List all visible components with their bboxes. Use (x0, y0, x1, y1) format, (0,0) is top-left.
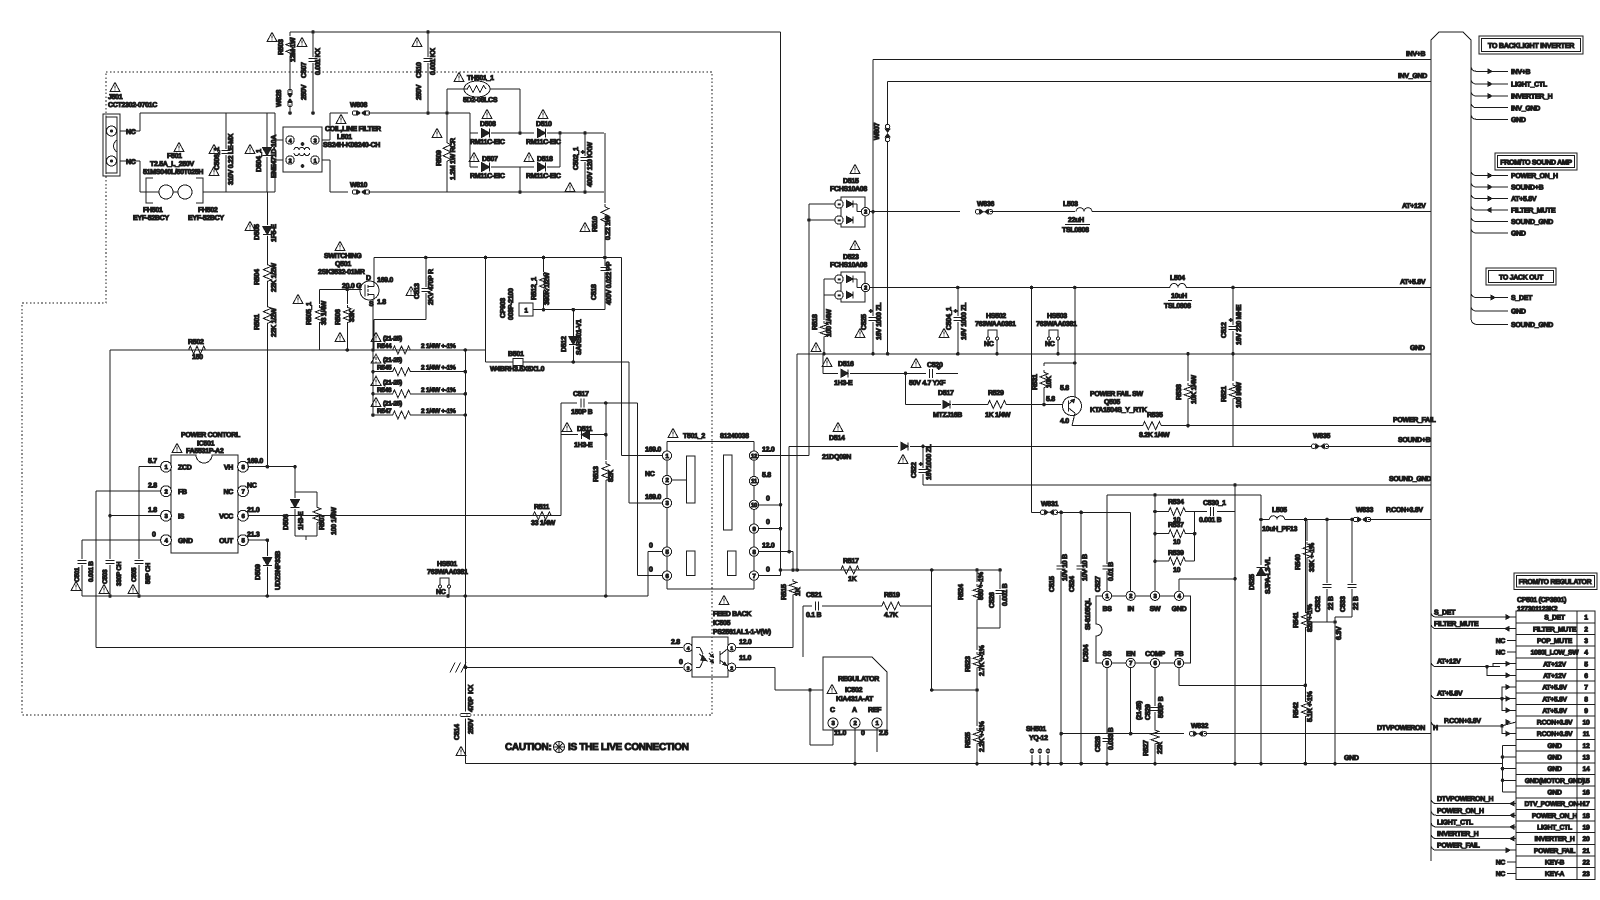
svg-text:GND(MOTOR_GND): GND(MOTOR_GND) (1525, 778, 1585, 785)
svg-text:D506: D506 (283, 514, 290, 530)
IC504 pin 2 IN (1126, 512, 1135, 613)
R504 labels (254, 263, 278, 292)
Y-capacitor C514 (461, 714, 471, 764)
svg-text:COMP: COMP (1145, 651, 1165, 658)
svg-text:763WAA0381: 763WAA0381 (975, 321, 1016, 328)
svg-text:POWER_FAIL: POWER_FAIL (1437, 843, 1481, 850)
svg-text:D507: D507 (482, 156, 498, 163)
wire OUT pin5 (248, 538, 270, 542)
svg-text:INVERTER_H: INVERTER_H (1437, 831, 1479, 838)
svg-text:169.0: 169.0 (377, 277, 393, 284)
R521 labels (1221, 382, 1243, 408)
capacitor C529 (1151, 697, 1160, 727)
svg-text:D504_1: D504_1 (256, 149, 263, 172)
label POWER_FAIL at connector (1393, 417, 1437, 424)
wire secondary ground rail (797, 352, 1431, 356)
wire Q501 gate (319, 288, 362, 304)
label GND bottom rail (1344, 755, 1359, 762)
svg-text:D523: D523 (843, 254, 859, 261)
signal GND to sound amp (1471, 228, 1526, 238)
svg-text:23: 23 (1583, 871, 1590, 878)
svg-text:LIGHT_CTL: LIGHT_CTL (1437, 819, 1474, 826)
svg-text:D517: D517 (938, 390, 954, 397)
svg-text:TSL0808: TSL0808 (1164, 303, 1191, 310)
svg-text:D515: D515 (843, 178, 859, 185)
svg-text:2.5: 2.5 (879, 730, 888, 737)
diode D525 (freewheel) (1257, 520, 1266, 766)
capacitor C527 (bootstrap) (1102, 495, 1111, 591)
svg-text:150: 150 (192, 354, 203, 361)
CP501 pin 20 INVERTER_H (1534, 836, 1590, 843)
CP501 pin 19 LIGHT_CTL (1537, 825, 1590, 832)
svg-text:C524: C524 (1069, 576, 1076, 592)
capacitor C522 (919, 445, 928, 486)
wire D515 output (AT+12V) (870, 210, 960, 214)
CP501 pin 13 GND (1547, 755, 1590, 762)
svg-text:NC: NC (1496, 871, 1506, 878)
wire line to bridge (428, 113, 520, 192)
C503 labels (99, 561, 123, 593)
svg-text:400V 120 KXW: 400V 120 KXW (587, 142, 594, 187)
svg-text:IC501: IC501 (197, 441, 215, 448)
capacitor C515 (1057, 512, 1066, 765)
svg-text:D: D (366, 275, 371, 282)
svg-text:0.22 1W: 0.22 1W (605, 215, 612, 240)
jumper W835 (1311, 433, 1431, 449)
svg-text:NC: NC (1496, 638, 1506, 645)
signal POWER_ON_H to sound amp (1471, 171, 1558, 181)
svg-text:21.3: 21.3 (247, 532, 260, 539)
wire Q505 collector (power fail) (1072, 425, 1140, 427)
coil line filter L501 (283, 127, 322, 172)
bridge diode D508 (470, 129, 522, 138)
wire POWER_FAIL to CP501 pin21 (1431, 843, 1516, 853)
svg-text:250V: 250V (301, 84, 308, 100)
CP501 pin 14 GND (1547, 766, 1590, 773)
label AT+12V at connector (1402, 203, 1426, 210)
wire line top (140, 112, 267, 114)
svg-text:GND: GND (1511, 117, 1526, 124)
svg-text:LIGHT_CTL: LIGHT_CTL (1511, 82, 1548, 89)
svg-text:2 1/4W +-1%: 2 1/4W +-1% (421, 343, 456, 350)
diode D516 (823, 354, 907, 378)
D510 labels (526, 110, 561, 147)
svg-text:5: 5 (1584, 661, 1588, 668)
capacitor C505 (135, 548, 144, 596)
CP501 pin 22 KEY-B (1545, 859, 1590, 866)
svg-text:FROM/TO SOUND AMP: FROM/TO SOUND AMP (1500, 159, 1572, 167)
svg-text:INV_GND: INV_GND (1511, 105, 1540, 112)
R513 labels (593, 466, 615, 482)
wire VCC pin6 (248, 514, 561, 518)
J501 label (108, 83, 157, 110)
svg-text:IC504: IC504 (1083, 644, 1090, 662)
jumper W828 (276, 89, 292, 115)
svg-text:D509: D509 (255, 564, 262, 580)
svg-text:5.1K +-1%: 5.1K +-1% (1307, 690, 1314, 722)
wire L501 in/out jogs (267, 113, 348, 192)
R540 element (1303, 520, 1311, 623)
svg-text:169.0: 169.0 (645, 494, 661, 501)
svg-text:CP903: CP903 (500, 298, 507, 318)
svg-text:11.0: 11.0 (739, 655, 751, 662)
label GND at connector (1410, 345, 1425, 352)
transistor Q505 power fail switch (1063, 397, 1082, 426)
resistor R538 (1184, 354, 1192, 426)
svg-text:B501: B501 (508, 351, 524, 358)
wire IC504 gnd to rail (1233, 485, 1237, 766)
svg-text:C520: C520 (927, 362, 943, 369)
resistor R501 (263, 304, 271, 467)
D517 labels (933, 390, 962, 419)
svg-text:SW: SW (1150, 606, 1161, 613)
svg-text:22K: 22K (1157, 742, 1164, 754)
R545 labels (371, 354, 456, 372)
R524 labels (958, 571, 985, 600)
svg-text:S_DET: S_DET (1434, 610, 1456, 617)
svg-text:9: 9 (1584, 708, 1588, 715)
IC502 labels (827, 676, 879, 703)
svg-text:HS503: HS503 (1047, 313, 1067, 320)
svg-text:GND: GND (1410, 345, 1425, 352)
svg-text:D510: D510 (536, 121, 552, 128)
R540 labels (1295, 542, 1316, 572)
svg-text:VCC: VCC (219, 514, 233, 521)
svg-text:FROM/TO REGULATOR: FROM/TO REGULATOR (1519, 578, 1592, 586)
capacitor C506_1 (222, 113, 231, 192)
jumper W831 (1040, 501, 1130, 515)
C506_1 labels (209, 133, 235, 185)
svg-text:DTV_POWER_ON-H: DTV_POWER_ON-H (1525, 801, 1585, 808)
caution note text (505, 742, 689, 754)
rectifier D523 labels (830, 241, 867, 270)
R546 labels (371, 376, 456, 394)
CP501 pin 3 POP_MUTE (1537, 638, 1588, 645)
svg-text:2: 2 (864, 286, 867, 292)
svg-text:PS2561AL1-1-V(W): PS2561AL1-1-V(W) (713, 628, 771, 636)
wire y-cap bus to secondary gnd (780, 32, 782, 488)
svg-text:763WAA0381: 763WAA0381 (427, 569, 468, 576)
svg-text:RM11C-EIC: RM11C-EIC (470, 139, 505, 146)
svg-text:R512_1: R512_1 (531, 277, 538, 300)
J501 pin NC labels (126, 129, 136, 166)
svg-text:R511: R511 (534, 504, 550, 511)
svg-text:5.8: 5.8 (762, 472, 771, 479)
svg-text:C532: C532 (1315, 596, 1322, 612)
C518 labels (591, 261, 613, 305)
R503 labels (267, 33, 297, 63)
svg-text:S_DET: S_DET (1544, 615, 1566, 622)
wire IC502 cathode (0, 0, 1, 1)
svg-text:1H3-E: 1H3-E (298, 511, 305, 530)
R538 labels (1176, 375, 1198, 404)
transformer T501_2 secondary pins (749, 442, 758, 581)
svg-text:2.8: 2.8 (671, 639, 680, 646)
capacitor C526 (977, 568, 1005, 628)
wire SOUND_GND (923, 483, 1431, 487)
svg-text:R521: R521 (1221, 386, 1228, 402)
C520 labels (909, 359, 946, 388)
wire secondary 0V bracket pins 9 10 (759, 488, 783, 576)
svg-text:GND: GND (178, 538, 193, 545)
C501 labels (71, 561, 95, 591)
D525 labels (1249, 556, 1272, 594)
transformer T501_2 primary winding bars (672, 456, 695, 576)
svg-text:10: 10 (1173, 567, 1181, 574)
svg-text:10: 10 (1583, 720, 1590, 727)
CP501 pin 2 FILTER_MUTE (1533, 626, 1588, 633)
svg-text:16: 16 (1583, 790, 1590, 797)
wire VH pin8 (248, 465, 297, 469)
svg-text:NC: NC (1496, 650, 1506, 657)
svg-text:820 +-1%: 820 +-1% (1307, 603, 1314, 632)
svg-text:R538: R538 (1176, 384, 1183, 400)
svg-text:P.CON+3.8V: P.CON+3.8V (1537, 720, 1573, 727)
jumper W807 (874, 82, 890, 354)
C513 labels (406, 269, 435, 305)
wire primary pin1 feed (621, 258, 662, 456)
wire POWER_ON_H to CP501 pin18 (1431, 808, 1516, 818)
diode D504_1 (TVS across line) (263, 113, 272, 192)
wire INVERTER_H to CP501 pin20 (1431, 831, 1516, 841)
svg-text:2.7K +-1%: 2.7K +-1% (979, 644, 986, 676)
R541 element (1301, 520, 1309, 686)
svg-text:1F5-E: 1F5-E (271, 224, 278, 242)
svg-text:0.033 B: 0.033 B (1108, 727, 1115, 750)
CP501 pin 18 POWER_ON_H (1532, 813, 1590, 820)
heat sink HS501 (427, 561, 468, 596)
resistor R518 (820, 313, 828, 356)
transformer T501_2 primary pins (662, 442, 671, 581)
B501 labels (490, 351, 545, 373)
svg-text:0: 0 (766, 496, 770, 503)
svg-text:12.0: 12.0 (739, 639, 752, 646)
svg-text:FA5531P-A2: FA5531P-A2 (186, 448, 224, 455)
D511 labels (562, 423, 593, 450)
IC501 pin 1 ZCD (148, 458, 192, 472)
svg-text:0.001 KX: 0.001 KX (430, 48, 437, 75)
ground symbol (chassis) (450, 663, 467, 673)
wire primary pin6 aux (637, 403, 662, 576)
D504_1 labels (245, 135, 278, 178)
svg-text:C507: C507 (301, 62, 308, 78)
D518 labels (524, 153, 561, 181)
svg-text:400V 0.022 PP: 400V 0.022 PP (606, 261, 613, 305)
wire P.CON+3.8V to CP501 pins 10 11 (1431, 718, 1516, 736)
svg-text:D518: D518 (537, 156, 553, 163)
IC504 pin 8 SS (1102, 651, 1112, 733)
D507 labels (469, 153, 505, 181)
svg-text:SARS01-V1: SARS01-V1 (576, 319, 583, 355)
svg-text:C506_1: C506_1 (214, 147, 221, 170)
label AT+5.8V at connector (1400, 279, 1426, 286)
resistor R521 (1229, 354, 1237, 447)
wire feedback 0 net (466, 666, 683, 668)
svg-text:GND: GND (1547, 790, 1562, 797)
R502 labels (188, 339, 204, 361)
svg-text:560 +-1%: 560 +-1% (978, 571, 985, 600)
R539 labels (1168, 550, 1184, 574)
svg-text:W810: W810 (350, 182, 367, 189)
svg-text:763WAA0381: 763WAA0381 (1036, 321, 1077, 328)
svg-text:AT+5.8V: AT+5.8V (1511, 196, 1537, 203)
svg-text:16V 1000 ZL: 16V 1000 ZL (876, 302, 883, 340)
svg-text:22 B: 22 B (1328, 596, 1335, 610)
svg-text:C513: C513 (414, 283, 421, 299)
svg-text:C527: C527 (1095, 576, 1102, 592)
transformer T501_2 secondary winding bars (724, 455, 736, 576)
svg-text:2.8: 2.8 (148, 483, 157, 490)
connector CP903 (519, 303, 545, 316)
C521 labels (806, 592, 822, 619)
svg-text:C503: C503 (102, 569, 109, 584)
svg-text:LIGHT_CTL: LIGHT_CTL (1537, 825, 1572, 832)
wire primary gnd to Y-cap (465, 667, 467, 711)
svg-text:0: 0 (649, 543, 653, 550)
svg-text:22 B: 22 B (1353, 596, 1360, 610)
transformer T501_2 labels (668, 429, 749, 441)
svg-text:EN: EN (1126, 651, 1135, 658)
svg-text:SH501: SH501 (1026, 726, 1046, 733)
R535 labels (1139, 412, 1170, 439)
svg-text:R547: R547 (377, 408, 392, 415)
svg-text:AT+12V: AT+12V (1543, 673, 1567, 680)
D508 labels (470, 110, 505, 147)
svg-text:1.8: 1.8 (148, 507, 157, 514)
svg-text:EYF-52BCY: EYF-52BCY (188, 215, 224, 222)
svg-text:TO JACK OUT: TO JACK OUT (1499, 275, 1544, 282)
D512 labels (561, 319, 583, 355)
CP501 pin 7 AT+5.8V (1542, 685, 1588, 692)
svg-text:169.0: 169.0 (645, 447, 661, 454)
svg-text:R529: R529 (988, 390, 1004, 397)
svg-text:D511: D511 (577, 426, 593, 433)
resistor R519 (879, 602, 932, 610)
svg-text:17: 17 (1583, 801, 1590, 808)
C528 labels (1095, 727, 1115, 752)
svg-text:NC: NC (126, 129, 136, 136)
svg-text:SWITCHING: SWITCHING (324, 253, 362, 260)
C530_1 labels (1199, 500, 1226, 524)
diode D514 (789, 442, 1313, 450)
resistor R542 (1301, 685, 1309, 765)
C502_1 labels (565, 142, 594, 192)
svg-text:0.001 KX: 0.001 KX (315, 48, 322, 75)
IC504 pin 4 GND (1172, 577, 1237, 613)
wire feedback 2.8 net (96, 647, 683, 649)
wire line bottom (226, 191, 267, 193)
wire primary ground rail (82, 594, 648, 598)
Q501 labels (318, 242, 365, 277)
svg-text:INVERTER_H: INVERTER_H (1534, 836, 1574, 843)
rectifier D515 (12V) (835, 197, 870, 227)
D516 labels (822, 358, 854, 388)
svg-text:FILTER_MUTE: FILTER_MUTE (1511, 208, 1556, 215)
diode D512 (569, 310, 578, 364)
resistor R510 (601, 133, 609, 259)
svg-text:127301123K2: 127301123K2 (1517, 606, 1558, 613)
svg-text:INV+B: INV+B (1406, 51, 1426, 58)
label P.CON+3.8V at connector (1386, 507, 1423, 514)
svg-text:SOUND_GND: SOUND_GND (1511, 322, 1553, 329)
CP903 labels (500, 288, 515, 320)
svg-text:R534: R534 (1168, 499, 1184, 506)
wire secondary ground bottom rail (466, 763, 1503, 765)
diode D511 (561, 403, 608, 439)
svg-text:250V: 250V (468, 718, 475, 734)
svg-text:12M 1W: 12M 1W (290, 37, 297, 62)
svg-text:W831: W831 (1041, 501, 1058, 508)
R517 labels (843, 558, 859, 583)
svg-text:10V 10 B: 10V 10 B (1062, 554, 1069, 581)
optocoupler IC505 labels (713, 596, 771, 637)
svg-text:KTA1504S_Y_RTK: KTA1504S_Y_RTK (1090, 407, 1147, 414)
resistor R502 (186, 346, 208, 354)
capacitor C528 (1103, 739, 1112, 766)
C532 labels (1315, 596, 1335, 612)
svg-text:(21-25): (21-25) (383, 357, 402, 364)
capacitor C518 (600, 258, 609, 310)
svg-text:P.CON+3.8V: P.CON+3.8V (1537, 731, 1573, 738)
svg-text:AT+12V: AT+12V (1402, 203, 1426, 210)
svg-text:D505: D505 (254, 224, 261, 240)
svg-text:L504: L504 (1170, 275, 1185, 282)
jumper W808 (350, 102, 428, 115)
svg-text:YQ-12: YQ-12 (1029, 735, 1048, 742)
svg-text:NC: NC (1496, 859, 1506, 866)
svg-text:56P CH: 56P CH (145, 563, 152, 584)
CP501 pin 11 P.CON+3.8V (1537, 731, 1590, 738)
inductor L503 (1062, 201, 1431, 234)
NC stub CP501 pin22 (1496, 859, 1516, 866)
svg-text:W833: W833 (1356, 507, 1373, 514)
resistor R506 (gate-source) (343, 290, 351, 352)
svg-text:C: C (830, 707, 835, 714)
svg-text:15: 15 (1583, 778, 1590, 785)
D506 R507 labels (283, 507, 338, 535)
svg-text:FB: FB (1175, 651, 1184, 658)
wire ground rail riser to aux row (796, 354, 798, 570)
svg-text:W835: W835 (1313, 433, 1330, 440)
wire D523 output (AT+5.8V) (870, 286, 1170, 290)
wire transformer bottom link (667, 580, 754, 589)
svg-text:6: 6 (1584, 673, 1588, 680)
svg-text:SOUND+B: SOUND+B (1398, 437, 1431, 444)
inductor L505 (1272, 507, 1287, 514)
wire Q501 drain node (374, 256, 621, 282)
svg-text:Q501: Q501 (335, 261, 351, 268)
inductor L504 (1164, 275, 1431, 310)
svg-text:0: 0 (679, 659, 683, 666)
svg-text:12: 12 (1583, 743, 1590, 750)
Q501 pin value labels (342, 275, 393, 308)
svg-text:GND: GND (1547, 755, 1562, 762)
svg-text:POWER_ON_H: POWER_ON_H (1511, 173, 1558, 180)
IC501 pin 3 IS (148, 507, 185, 521)
svg-text:16V 1000 ZL: 16V 1000 ZL (961, 302, 968, 340)
svg-text:81240038: 81240038 (720, 433, 749, 440)
signal GND to jack out (1471, 306, 1526, 316)
svg-text:R523: R523 (965, 656, 972, 672)
C527 labels (1095, 562, 1115, 592)
R534 labels (1168, 499, 1184, 524)
C514 labels (454, 684, 475, 755)
svg-text:20: 20 (1583, 836, 1590, 843)
svg-text:21DQ09N: 21DQ09N (822, 454, 851, 461)
svg-text:FB: FB (178, 489, 187, 496)
fuse F501 with holders FH501 FH502 (140, 178, 226, 203)
jumper W836 (975, 201, 1075, 214)
